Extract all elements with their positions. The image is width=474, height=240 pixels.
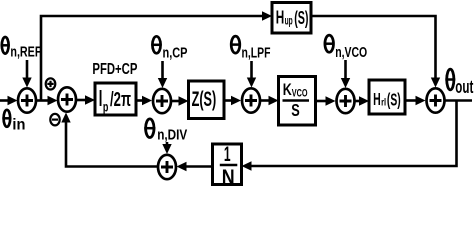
svg-text:n,DIV: n,DIV <box>157 128 187 144</box>
wire: theta_n,DIV noise arrow into S7 <box>162 142 171 154</box>
wire: Kvco/S to S5 <box>316 96 336 105</box>
svg-text:in: in <box>12 116 25 133</box>
wire: theta_in input arrow into summer S1 <box>0 96 18 105</box>
wire: S3 to Z(S) block <box>172 96 189 105</box>
wire: S2 to PFD+CP block <box>77 95 95 104</box>
svg-text:n,REF: n,REF <box>10 45 41 61</box>
wire: theta_n,CP noise arrow into S3 <box>158 61 167 88</box>
svg-text:S: S <box>291 100 300 120</box>
svg-text:p: p <box>103 99 109 114</box>
wire: 1/N block to S7 <box>177 162 213 171</box>
block: VCO Kvco/S <box>279 77 316 126</box>
summer S3 <box>153 89 171 113</box>
wire: feedback branch down and left to 1/N block <box>242 101 457 171</box>
svg-text:N: N <box>222 165 235 189</box>
svg-text:n,LPF: n,LPF <box>242 45 271 61</box>
label theta_n,DIV <box>144 119 187 144</box>
svg-text:out: out <box>455 76 473 97</box>
block: loop filter Z(S) <box>189 81 225 119</box>
label theta_n,CP <box>151 36 187 61</box>
wire: theta_n,VCO noise arrow into S5 <box>341 60 350 88</box>
block: Hrl(S) <box>369 80 405 114</box>
summer S1 <box>18 88 36 112</box>
svg-text:rl: rl <box>381 97 386 109</box>
svg-text:H: H <box>373 89 381 109</box>
svg-text:n,VCO: n,VCO <box>335 45 367 61</box>
svg-text:(S): (S) <box>387 89 401 109</box>
label theta_n,LPF <box>230 36 270 61</box>
wire: output line from S6 to right edge <box>446 99 473 102</box>
wire: vertical takeoff up to top feed-forward line <box>41 11 272 100</box>
summer S2 <box>58 87 76 111</box>
label theta_in <box>2 110 25 134</box>
label theta_n,REF <box>1 37 42 61</box>
summer S5 <box>337 89 355 113</box>
svg-text:up: up <box>285 14 293 28</box>
wire: theta_n,REF noise arrow into S1 <box>22 60 31 88</box>
svg-text:n,CP: n,CP <box>163 46 188 62</box>
wire: Hrl(S) to S6 <box>405 96 426 105</box>
wire: S5 to Hrl(S) block <box>356 96 370 105</box>
svg-text:(S): (S) <box>294 7 308 28</box>
svg-text:Z(S): Z(S) <box>192 86 217 111</box>
svg-text:I: I <box>99 85 103 111</box>
minus sign label at S2 lower (feedback) input <box>50 114 59 126</box>
label theta_out <box>445 69 473 97</box>
block: PFD+CP gain Ip/2pi <box>95 83 136 115</box>
wire: PFD+CP block to S3 <box>136 96 152 105</box>
plus sign label at S2 upper-left input <box>46 78 56 89</box>
svg-text:H: H <box>276 7 285 28</box>
wire: S7 left and up into S2 (negative feedback) <box>61 113 157 167</box>
block: Hup(S) feed-forward <box>272 3 311 34</box>
svg-text:PFD+CP: PFD+CP <box>92 61 137 78</box>
wire: S4 to Kvco/S block <box>261 96 279 105</box>
svg-text:1: 1 <box>224 143 231 166</box>
block: divider 1/N <box>213 143 242 189</box>
label theta_n,VCO <box>324 35 367 61</box>
wire: top line from Hup(S) to output summer S6 <box>311 16 440 88</box>
summer S7 <box>158 155 176 179</box>
summer S4 <box>242 88 260 112</box>
summer S6 <box>427 88 445 112</box>
label PFD+CP above block <box>92 61 137 78</box>
wire: S1 to S2 with takeoff junction <box>37 96 58 105</box>
svg-text:VCO: VCO <box>292 87 308 99</box>
svg-text:/2π: /2π <box>110 89 131 111</box>
wire: theta_n,LPF noise arrow into S4 <box>247 61 256 88</box>
wire: Z(S) to S4 <box>224 96 241 105</box>
